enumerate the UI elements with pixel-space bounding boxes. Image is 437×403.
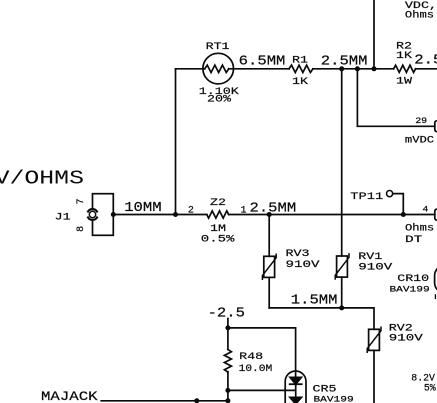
wire R48 bottom to MAJACK [228, 372, 296, 401]
svg-text:5%: 5% [424, 383, 437, 394]
svg-text:910V: 910V [358, 261, 393, 273]
svg-text:8: 8 [76, 226, 87, 232]
svg-text:1W: 1W [396, 75, 413, 87]
wire -2.5 net down to R48 and CR5 [228, 319, 296, 378]
svg-text:1.5MM: 1.5MM [291, 293, 338, 308]
diode CR5 upper [290, 377, 302, 397]
svg-text:-2.5: -2.5 [208, 306, 245, 321]
diode package CR5 [285, 371, 306, 403]
wire MAJACK [101, 400, 228, 402]
node RV1 bottom [339, 305, 344, 310]
svg-text:CR10: CR10 [397, 273, 429, 285]
svg-text:V/OHMS: V/OHMS [0, 168, 84, 190]
resistor Z2 [207, 211, 229, 218]
svg-text:J1: J1 [55, 211, 71, 223]
svg-text:TP11: TP11 [350, 190, 383, 202]
svg-text:DT: DT [405, 234, 423, 246]
svg-text:2: 2 [188, 206, 194, 217]
wire branch to pin 29 (mVDC) [357, 69, 434, 127]
node J1 output [111, 212, 116, 217]
connector J1 box [93, 194, 114, 236]
svg-text:CR5: CR5 [313, 383, 337, 395]
wire middle vertical from R1 node down through RV1 [341, 69, 343, 256]
svg-text:7: 7 [76, 198, 87, 204]
wire Ohms/DT horizontal net [113, 214, 435, 216]
svg-text:2.5MM: 2.5MM [321, 54, 368, 69]
wire left vertical from RT1 corner down to J1 net [175, 69, 177, 215]
J1 jack symbol [86, 208, 99, 221]
node top off-page [372, 66, 377, 71]
node left vertical joins [173, 212, 178, 217]
svg-text:RT1: RT1 [206, 41, 230, 53]
diode CR5 lower [290, 397, 302, 403]
svg-text:910V: 910V [389, 332, 424, 344]
node Z2-RV3 [267, 212, 272, 217]
svg-text:mVDC: mVDC [405, 135, 434, 146]
svg-text:4: 4 [422, 204, 428, 214]
node R1-RV1 [339, 66, 344, 71]
svg-text:BAV199: BAV199 [313, 394, 353, 403]
wire top vertical to off-page [373, 0, 375, 69]
svg-text:1K: 1K [396, 49, 413, 61]
thermistor RT1 [203, 53, 234, 84]
CR10 lead mark [434, 295, 436, 299]
node R48 bottom [225, 388, 230, 393]
svg-text:29: 29 [415, 116, 427, 126]
svg-text:MAJACK: MAJACK [41, 390, 98, 403]
svg-text:R48: R48 [239, 350, 263, 362]
resistor R48 [224, 349, 231, 372]
wire bottom horizontal 1.5MM net [269, 308, 374, 329]
varistor RV2 [367, 327, 381, 403]
node MAJACK 2 [225, 398, 230, 403]
node TP11 [401, 212, 406, 217]
svg-text:10MM: 10MM [124, 201, 161, 216]
node mVDC branch [355, 66, 360, 71]
node MAJACK 1 [194, 398, 199, 403]
svg-text:Ohms: Ohms [405, 223, 434, 234]
resistor R2 [394, 65, 416, 72]
pin box 29 [435, 121, 437, 132]
pin box 4 [435, 209, 437, 220]
resistor R1 [289, 65, 313, 72]
svg-text:BAV199: BAV199 [389, 284, 429, 293]
wire main horizontal top net [176, 68, 437, 70]
varistor RV1 [335, 254, 349, 308]
varistor RV3 [262, 215, 276, 308]
svg-text:1K: 1K [292, 75, 309, 87]
svg-text:6.5MM: 6.5MM [239, 54, 286, 69]
svg-text:10.0M: 10.0M [239, 364, 273, 376]
svg-text:R1: R1 [292, 54, 308, 66]
test point TP11 [387, 191, 404, 215]
svg-text:Ohms: Ohms [405, 10, 434, 21]
svg-text:20%: 20% [207, 93, 232, 105]
svg-text:Z2: Z2 [210, 196, 226, 208]
svg-text:1: 1 [240, 206, 246, 217]
svg-text:0.5%: 0.5% [201, 233, 235, 245]
svg-text:910V: 910V [286, 259, 321, 271]
svg-text:2.5MM: 2.5MM [414, 53, 437, 68]
node -2.5 branch [225, 325, 230, 330]
svg-text:2.5MM: 2.5MM [250, 201, 297, 216]
diode package CR10 (cut at edge) [435, 265, 437, 293]
